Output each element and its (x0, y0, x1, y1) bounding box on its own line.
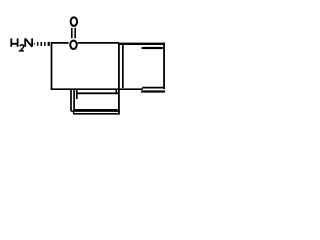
amine label H2N : subscript 2 (20, 45, 24, 51)
ring B outer left edge (70, 89, 72, 111)
bond ester O to aryl (78, 42, 119, 44)
ring C bottom edge (73, 113, 119, 115)
amine label H2N : letter H (11, 38, 17, 46)
bond C* to ester O (51, 42, 69, 44)
ring C bottom jog vertical (73, 110, 75, 114)
ring A bottom lower-right line (141, 90, 165, 92)
carbonyl oxygen label O (71, 17, 78, 26)
bottom chain horizontal / ring B top edge (51, 88, 143, 90)
ring A inner left edge (122, 45, 124, 89)
ester oxygen label O (70, 41, 77, 49)
ring A right edge (163, 43, 165, 90)
ring B inner top line (77, 92, 119, 94)
ring A top inner thick band (142, 47, 163, 49)
ring B outer bottom edge (71, 110, 120, 112)
carbonyl C=O double bond right line (74, 28, 76, 38)
inner right stub (115, 90, 117, 94)
ring C left edge partial (76, 89, 78, 99)
ring A top edge thick band (118, 43, 165, 45)
shared long vertical edge (118, 43, 120, 115)
ring B inner bottom edge (74, 109, 117, 111)
amine label H2N : letter N (25, 38, 32, 46)
bond C* down vertical (51, 42, 53, 90)
hash wedge bond N to C* (34, 42, 50, 46)
carbonyl C=O double bond left line (71, 28, 73, 38)
ring B inner left edge (73, 89, 75, 110)
ring A bottom upper-right line (142, 87, 165, 89)
